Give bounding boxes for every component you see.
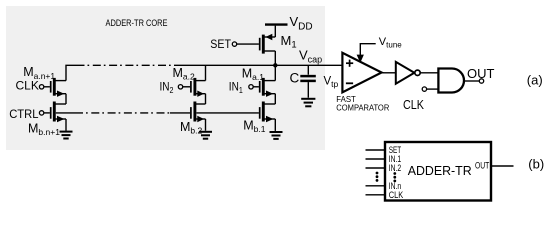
wire comparator to inverter	[382, 72, 396, 74]
svg-text:CLK: CLK	[389, 190, 404, 200]
svg-text:(b): (b)	[528, 156, 544, 171]
transistor Mb.1	[260, 102, 276, 131]
VDD supply bar	[265, 23, 288, 25]
op-amp comparator	[342, 53, 381, 93]
Vtune arrow	[357, 44, 376, 63]
ellipsis dots inside	[393, 172, 396, 182]
input wire IN.n	[366, 185, 386, 187]
svg-text:ADDER-TR CORE: ADDER-TR CORE	[106, 18, 168, 28]
AND gate	[438, 69, 464, 93]
CLK input terminal	[422, 87, 426, 91]
svg-text:CTRL: CTRL	[9, 107, 39, 121]
transistor Mb.n+1	[39, 102, 66, 131]
transistor Ma.n+1	[39, 78, 66, 104]
svg-text:ADDER-TR: ADDER-TR	[408, 163, 472, 178]
plus input mark	[346, 60, 353, 67]
input wire IN.1	[366, 158, 386, 160]
capacitor C	[300, 65, 316, 97]
ground branch2	[199, 132, 212, 139]
transistor Ma.1	[249, 65, 275, 104]
svg-text:CLK: CLK	[16, 78, 39, 92]
junction dot at Vcap rail	[273, 63, 277, 67]
svg-text:(a): (a)	[527, 73, 543, 88]
ellipsis dots outside	[376, 172, 379, 182]
wire: lower gate line solid into Mb.2	[170, 112, 190, 114]
inverter	[396, 62, 415, 84]
wire: lower gate line solid left	[56, 112, 75, 114]
transistor M1 (PMOS)	[232, 26, 275, 66]
block diagram box	[385, 142, 491, 201]
ground capacitor	[301, 99, 315, 107]
svg-text:Vtp: Vtp	[324, 76, 339, 90]
transistor Ma.2	[178, 65, 205, 104]
shaded core region	[6, 6, 325, 150]
svg-text:CLK: CLK	[403, 98, 425, 112]
svg-text:C: C	[290, 70, 300, 85]
svg-text:IN.2: IN.2	[389, 163, 402, 173]
wire: Vcap rail solid	[174, 64, 342, 66]
minus input mark	[346, 82, 353, 84]
svg-text:OUT: OUT	[467, 66, 495, 81]
wire: top dash-dot continuation	[77, 64, 172, 66]
wire inverter to AND	[420, 72, 438, 74]
input wire SET	[366, 149, 386, 151]
input wire IN.2	[366, 167, 386, 169]
wire: lower gate dash-dot	[75, 112, 170, 114]
svg-text:OUT: OUT	[475, 161, 490, 171]
output wire OUT	[491, 165, 514, 167]
ground branch1	[60, 132, 73, 139]
wire: branch1 drain corner to rail	[66, 65, 77, 80]
svg-text:COMPARATOR: COMPARATOR	[336, 103, 389, 112]
input wire CLK	[366, 194, 386, 196]
wire: gate bus Mb.2 to Mb.1	[196, 112, 259, 114]
svg-text:SET: SET	[210, 37, 231, 51]
ground branch3	[270, 132, 283, 139]
svg-text:Vtune: Vtune	[379, 36, 402, 50]
OUT wire and terminal	[464, 80, 479, 82]
transistor Mb.2	[191, 102, 206, 131]
